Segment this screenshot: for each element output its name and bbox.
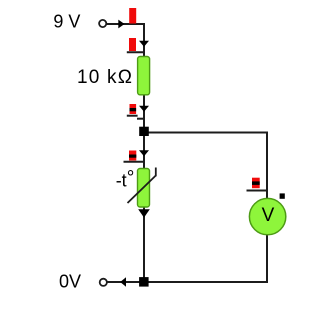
svg-text:10 kΩ: 10 kΩ [77, 67, 133, 88]
thermistor diagonal stroke [128, 176, 156, 204]
svg-text:9 V: 9 V [53, 12, 80, 32]
current arrow down (below resistor) [139, 106, 149, 112]
thermistor diagonal vertical tail [155, 168, 157, 177]
svg-text:-t°: -t° [116, 168, 135, 191]
current arrow down (above thermistor) [139, 150, 149, 156]
junction node upper [139, 127, 149, 136]
wire left vertical main branch [143, 23, 145, 283]
current bar indicator red (top) [129, 8, 136, 24]
wire top horizontal from 9V terminal to corner [107, 23, 146, 25]
svg-text:V: V [262, 205, 275, 226]
current arrow down (above resistor) [139, 41, 149, 47]
voltmeter U1 body [249, 198, 285, 234]
indicator baseline tick (stepped) [127, 115, 138, 117]
voltage bar indicator red/black (above thermistor) [129, 151, 136, 161]
svg-text:0V: 0V [59, 272, 81, 292]
indicator baseline tick [124, 161, 146, 163]
current arrow right on top wire [118, 20, 124, 29]
wire right vertical branch [266, 132, 268, 284]
wire bottom horizontal [107, 281, 268, 283]
junction node lower [139, 277, 149, 287]
voltage bar indicator red/black (at voltmeter) [252, 178, 260, 189]
current arrow left on bottom wire [120, 277, 126, 287]
indicator baseline tick [247, 190, 268, 192]
current bar indicator red (above resistor) [129, 38, 136, 51]
voltmeter polarity mark black square [280, 193, 285, 198]
current arrow down (below thermistor) [138, 209, 150, 217]
voltage bar indicator red/black (below resistor) [130, 104, 137, 114]
thermistor body [138, 169, 150, 208]
terminal 9V open circle [99, 20, 106, 27]
resistor R1 body [138, 57, 150, 95]
wire middle horizontal to right branch [144, 132, 268, 134]
indicator baseline tick [127, 51, 145, 53]
terminal 0V open circle [100, 279, 107, 286]
